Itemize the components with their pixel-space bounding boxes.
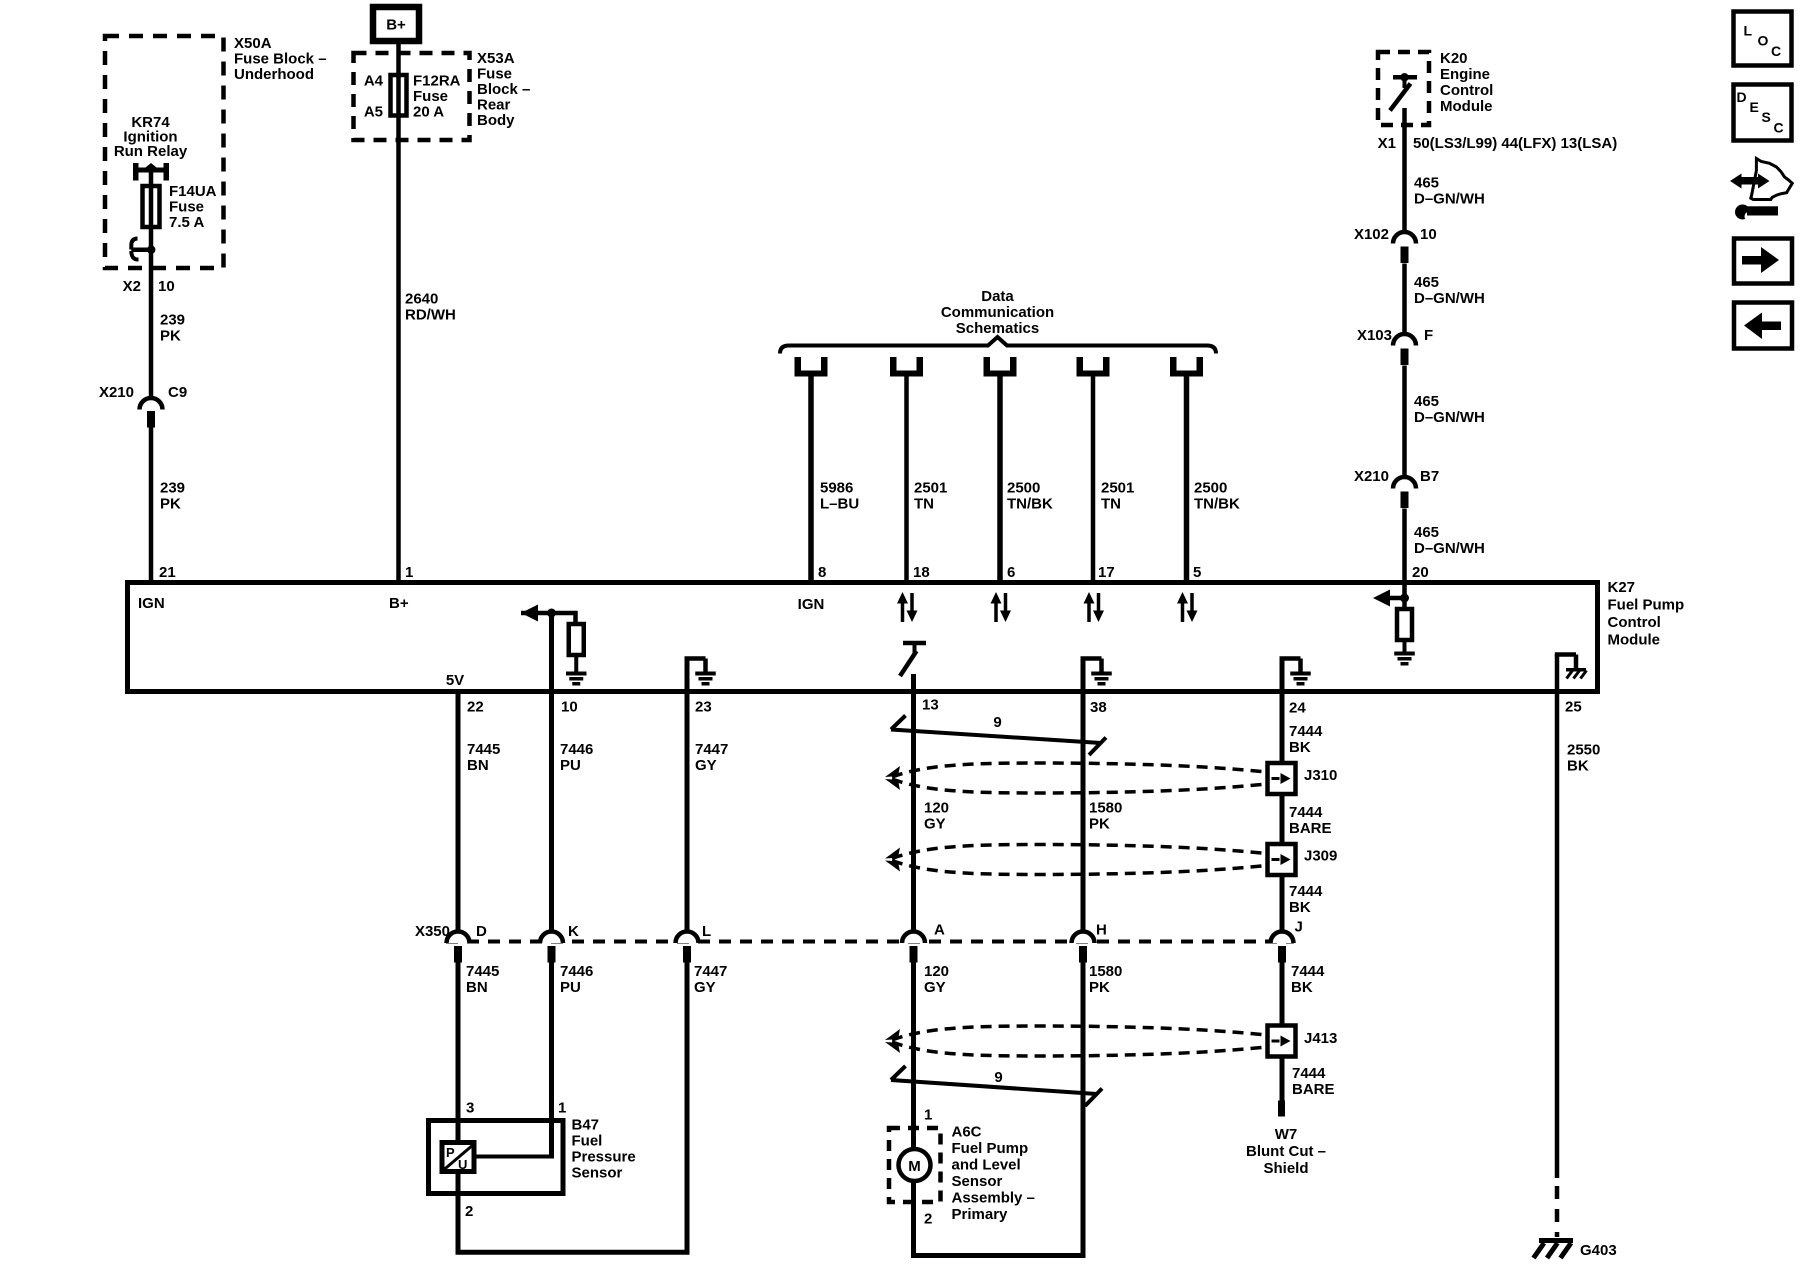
svg-text:2: 2 [465,1203,473,1220]
svg-text:F12RA: F12RA [413,73,461,90]
svg-text:Schematics: Schematics [956,320,1039,337]
svg-text:L: L [702,923,711,940]
svg-text:9: 9 [994,1069,1002,1086]
svg-text:K: K [568,923,579,940]
svg-text:X350: X350 [415,923,450,940]
svg-text:Underhood: Underhood [234,66,314,83]
svg-text:24: 24 [1289,700,1306,717]
svg-text:U: U [458,1157,467,1172]
svg-text:IGN: IGN [798,596,825,613]
svg-text:239: 239 [160,312,185,329]
svg-text:A5: A5 [364,104,383,121]
svg-text:Fuel Pump: Fuel Pump [1608,597,1685,614]
svg-text:J: J [1295,919,1303,936]
svg-text:F: F [1424,327,1433,344]
svg-text:PK: PK [160,328,181,345]
svg-text:S: S [1762,109,1771,125]
svg-text:BARE: BARE [1292,1081,1335,1098]
svg-text:2: 2 [924,1211,932,1228]
svg-text:7446: 7446 [560,741,593,758]
svg-text:PU: PU [560,979,581,996]
svg-text:Rear: Rear [477,97,511,114]
svg-text:X2: X2 [123,278,141,295]
svg-text:G403: G403 [1580,1242,1617,1259]
svg-text:2500: 2500 [1007,480,1040,497]
svg-text:BN: BN [467,757,489,774]
svg-text:D–GN/WH: D–GN/WH [1414,540,1485,557]
svg-text:TN/BK: TN/BK [1194,496,1240,513]
svg-text:20 A: 20 A [413,104,444,121]
svg-text:D: D [476,923,487,940]
svg-text:2500: 2500 [1194,480,1227,497]
svg-text:Sensor: Sensor [572,1165,623,1182]
svg-text:BARE: BARE [1289,820,1332,837]
svg-text:465: 465 [1414,274,1439,291]
svg-text:17: 17 [1098,564,1115,581]
svg-text:Fuse: Fuse [477,66,512,83]
svg-text:Fuse Block –: Fuse Block – [234,51,327,68]
svg-text:9: 9 [993,714,1001,731]
svg-text:J309: J309 [1304,848,1337,865]
svg-text:X50A: X50A [234,35,272,52]
svg-text:7444: 7444 [1289,804,1323,821]
svg-text:O: O [1758,33,1769,49]
svg-text:X210: X210 [1354,468,1389,485]
svg-text:X102: X102 [1354,226,1389,243]
svg-text:239: 239 [160,480,185,497]
svg-text:X1: X1 [1378,135,1396,152]
svg-text:1580: 1580 [1089,800,1122,817]
svg-text:7444: 7444 [1289,723,1323,740]
svg-text:Engine: Engine [1440,66,1490,83]
svg-text:BK: BK [1567,758,1589,775]
svg-text:D: D [1737,89,1747,105]
svg-text:E: E [1750,99,1759,115]
svg-text:A: A [934,922,945,939]
svg-text:BK: BK [1289,899,1311,916]
svg-text:F14UA: F14UA [169,183,217,200]
svg-text:L–BU: L–BU [820,496,859,513]
svg-text:7444: 7444 [1291,963,1325,980]
svg-text:Assembly –: Assembly – [952,1190,1035,1207]
svg-text:GY: GY [695,757,717,774]
svg-text:Primary: Primary [952,1206,1009,1223]
svg-text:2550: 2550 [1567,742,1600,759]
svg-text:PK: PK [160,496,181,513]
svg-text:B+: B+ [386,17,406,34]
svg-text:1: 1 [405,564,413,581]
svg-text:1580: 1580 [1089,963,1122,980]
svg-text:C9: C9 [168,384,187,401]
svg-text:10: 10 [561,699,578,716]
svg-text:21: 21 [159,564,176,581]
svg-text:RD/WH: RD/WH [405,307,456,324]
svg-text:3: 3 [466,1100,474,1117]
svg-text:Communication: Communication [941,304,1054,321]
svg-text:Module: Module [1440,98,1493,115]
svg-text:2640: 2640 [405,291,438,308]
svg-text:23: 23 [695,699,712,716]
svg-text:Sensor: Sensor [952,1173,1003,1190]
svg-text:GY: GY [694,979,716,996]
svg-text:7.5 A: 7.5 A [169,214,204,231]
svg-text:7447: 7447 [695,741,728,758]
svg-text:7445: 7445 [467,741,500,758]
svg-text:Fuse: Fuse [169,199,204,216]
svg-text:8: 8 [818,564,826,581]
svg-text:BN: BN [466,979,488,996]
svg-text:Fuse: Fuse [413,88,448,105]
svg-text:W7: W7 [1275,1126,1298,1143]
svg-text:A6C: A6C [952,1124,982,1141]
svg-text:Pressure: Pressure [572,1149,636,1166]
svg-text:465: 465 [1414,393,1439,410]
svg-text:18: 18 [913,564,930,581]
svg-text:D–GN/WH: D–GN/WH [1414,409,1485,426]
svg-text:10: 10 [1420,226,1437,243]
svg-text:Shield: Shield [1263,1160,1308,1177]
svg-text:20: 20 [1412,564,1429,581]
svg-text:25: 25 [1565,699,1582,716]
svg-text:465: 465 [1414,524,1439,541]
svg-text:B7: B7 [1420,468,1439,485]
svg-text:GY: GY [924,816,946,833]
svg-text:7447: 7447 [694,963,727,980]
svg-text:Body: Body [477,112,515,129]
svg-text:K20: K20 [1440,50,1468,67]
svg-text:C: C [1774,120,1784,136]
svg-text:22: 22 [467,699,484,716]
svg-text:5986: 5986 [820,480,853,497]
svg-text:5: 5 [1193,564,1201,581]
svg-text:D–GN/WH: D–GN/WH [1414,290,1485,307]
svg-text:6: 6 [1007,564,1015,581]
svg-text:B47: B47 [572,1117,600,1134]
svg-text:Control: Control [1440,82,1493,99]
svg-text:C: C [1771,43,1781,59]
svg-text:H: H [1096,922,1107,939]
svg-text:K27: K27 [1608,579,1636,596]
svg-text:X53A: X53A [477,50,515,67]
svg-text:1: 1 [558,1100,566,1117]
svg-text:7444: 7444 [1292,1065,1326,1082]
svg-text:M: M [908,1158,921,1175]
svg-text:PU: PU [560,757,581,774]
svg-text:13: 13 [922,697,939,714]
svg-text:2501: 2501 [1101,480,1134,497]
svg-text:BK: BK [1289,739,1311,756]
svg-text:Fuel Pump: Fuel Pump [952,1140,1029,1157]
svg-text:38: 38 [1090,699,1107,716]
svg-text:GY: GY [924,979,946,996]
svg-text:50(LS3/L99) 44(LFX) 13(LSA): 50(LS3/L99) 44(LFX) 13(LSA) [1413,135,1617,152]
svg-text:PK: PK [1089,816,1110,833]
svg-text:10: 10 [158,278,175,295]
svg-text:1: 1 [924,1107,932,1124]
svg-text:X210: X210 [99,384,134,401]
svg-text:P: P [446,1145,455,1160]
svg-text:465: 465 [1414,175,1439,192]
svg-text:Data: Data [981,288,1014,305]
svg-text:120: 120 [924,963,949,980]
svg-text:Control: Control [1608,614,1661,631]
svg-text:J310: J310 [1304,767,1337,784]
svg-text:5V: 5V [446,672,464,689]
svg-text:L: L [1744,23,1753,39]
svg-text:X103: X103 [1357,327,1392,344]
svg-text:Block –: Block – [477,81,530,98]
svg-text:and Level: and Level [952,1157,1021,1174]
svg-text:Module: Module [1608,632,1661,649]
svg-text:TN/BK: TN/BK [1007,496,1053,513]
svg-text:Fuel: Fuel [572,1133,603,1150]
svg-text:7445: 7445 [466,963,499,980]
svg-text:TN: TN [914,496,934,513]
svg-text:BK: BK [1291,979,1313,996]
svg-text:7446: 7446 [560,963,593,980]
svg-text:A4: A4 [364,73,384,90]
svg-text:PK: PK [1089,979,1110,996]
svg-text:TN: TN [1101,496,1121,513]
svg-text:D–GN/WH: D–GN/WH [1414,191,1485,208]
svg-text:Run Relay: Run Relay [114,143,188,160]
svg-text:2501: 2501 [914,480,947,497]
svg-text:IGN: IGN [138,595,165,612]
svg-text:120: 120 [924,800,949,817]
svg-text:Blunt Cut –: Blunt Cut – [1246,1143,1326,1160]
svg-text:7444: 7444 [1289,883,1323,900]
svg-text:J413: J413 [1304,1030,1337,1047]
svg-text:B+: B+ [389,595,409,612]
